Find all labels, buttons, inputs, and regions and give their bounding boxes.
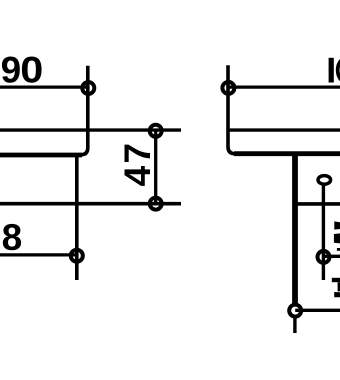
dimension line at post bottom going right: [295, 309, 340, 312]
dimension line 90: [0, 85, 89, 88]
shelf top line (left view): [0, 128, 181, 131]
bracket lower line (front view): [295, 202, 340, 206]
svg-text:0: 0: [20, 49, 43, 90]
shelf bottom thick line (left view): [0, 153, 82, 158]
cropped rotated dimension text fragment upper 2: [334, 233, 340, 243]
cropped rotated dimension text fragment lower right sliver: [338, 282, 340, 291]
extension line / shelf left edge (front view): [228, 65, 340, 154]
marker circle 47 bottom: [150, 198, 162, 210]
cropped rotated dimension text fragment upper 1: [334, 221, 340, 229]
dimension line 100: [229, 85, 340, 88]
svg-text:8: 8: [2, 217, 23, 258]
marker circle 47 top: [150, 125, 162, 137]
dimension stub line to right edge: [324, 255, 340, 258]
svg-text:47: 47: [117, 141, 158, 187]
cropped rotated dimension text fragment upper 3: [337, 248, 340, 251]
svg-text:9: 9: [1, 49, 22, 90]
pin stem / extension line: [322, 185, 325, 280]
shelf top line (front view): [228, 128, 340, 131]
dimension label 100: first zero (cropped at right edge): [338, 58, 340, 83]
bracket front edge vertical (left view): [75, 156, 79, 280]
extension line / shelf front edge (left view): [0, 66, 88, 155]
marker circle on pin stem: [318, 251, 330, 263]
dimension line 47 vertical: [154, 130, 157, 204]
marker circle 90: [82, 82, 94, 94]
marker circle 100: [222, 82, 234, 94]
marker circle at post bottom: [289, 305, 301, 317]
pin ellipse (front view): [318, 176, 331, 185]
cropped rotated dimension text fragment lower bottom bar: [334, 292, 340, 297]
bracket post (front view): [292, 156, 298, 305]
cropped rotated dimension text fragment lower top bar: [332, 278, 340, 282]
shelf bottom thick line (front view): [234, 151, 340, 156]
dimension label 100: digit 1 (plain bar glyph): [329, 58, 334, 83]
marker circle 8: [71, 250, 83, 262]
bracket bottom line (left view): [0, 202, 181, 206]
dimension line 8: [0, 253, 77, 256]
extension stub below post circle: [293, 317, 296, 333]
